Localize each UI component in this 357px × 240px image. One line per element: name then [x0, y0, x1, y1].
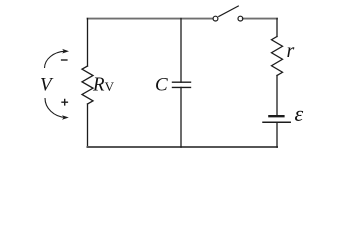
minus sign (top polarity)	[61, 59, 68, 61]
svg-text:C: C	[155, 74, 168, 95]
svg-text:V: V	[40, 74, 54, 95]
svg-text:R: R	[92, 73, 104, 96]
svg-text:ε: ε	[295, 101, 304, 126]
battery bottom plate (long, thin)	[263, 121, 290, 123]
wire bottom horizontal	[88, 146, 278, 148]
wire right vertical upper	[276, 19, 278, 37]
switch blade (open)	[219, 6, 239, 16]
resistor r zigzag	[272, 37, 283, 76]
arrowhead of bottom curved arrow	[62, 115, 69, 120]
wire top-left horizontal (node to switch)	[88, 18, 213, 20]
polarity curved arrow bottom	[45, 98, 65, 118]
wire right vertical lower (battery to bottom)	[276, 123, 278, 147]
switch terminal circle left	[213, 16, 218, 21]
capacitor C top plate	[173, 81, 191, 83]
plus sign (bottom polarity)	[61, 99, 68, 106]
resistor RV zigzag	[82, 66, 93, 104]
wire left vertical lower	[87, 104, 89, 147]
polarity curved arrow top	[45, 51, 66, 68]
svg-text:V: V	[105, 79, 115, 94]
wire left vertical upper	[87, 19, 89, 67]
battery top plate (short, thick)	[269, 115, 283, 117]
wire top-right horizontal (switch to right corner)	[243, 18, 277, 20]
wire middle vertical upper (capacitor branch)	[180, 19, 182, 83]
arrowhead of top curved arrow	[62, 49, 69, 54]
switch terminal circle right	[238, 16, 243, 21]
wire middle vertical lower	[180, 87, 182, 147]
svg-text:r: r	[287, 40, 295, 62]
capacitor C bottom plate	[173, 86, 191, 88]
wire right vertical middle (r to battery)	[276, 76, 278, 116]
